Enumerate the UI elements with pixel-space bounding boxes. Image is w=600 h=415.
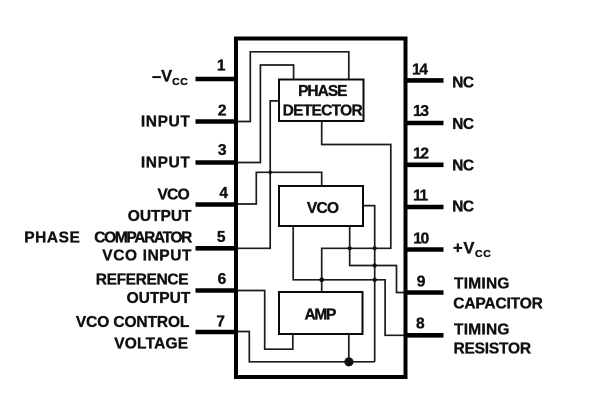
svg-text:DETECTOR: DETECTOR [283,102,363,119]
svg-text:VCO CONTROL: VCO CONTROL [76,314,189,331]
svg-text:OUTPUT: OUTPUT [127,290,191,307]
svg-text:INPUT: INPUT [141,154,191,171]
svg-text:10: 10 [413,230,428,247]
svg-text:COMPARATOR: COMPARATOR [94,229,192,246]
svg-text:14: 14 [412,61,428,78]
svg-text:NC: NC [452,116,474,133]
svg-text:VCO INPUT: VCO INPUT [102,248,192,265]
svg-text:–VCC: –VCC [152,68,189,89]
svg-text:VOLTAGE: VOLTAGE [114,335,188,352]
svg-text:AMP: AMP [305,306,337,323]
svg-text:3: 3 [218,142,227,159]
svg-text:TIMING: TIMING [454,276,510,293]
svg-text:NC: NC [452,158,474,175]
svg-text:NC: NC [452,198,474,215]
svg-text:VCO: VCO [307,200,339,217]
svg-text:8: 8 [416,316,425,333]
svg-text:REFERENCE: REFERENCE [96,272,188,289]
svg-text:VCO: VCO [158,187,190,204]
svg-text:OUTPUT: OUTPUT [128,208,192,225]
svg-text:9: 9 [417,274,426,291]
svg-text:TIMING: TIMING [454,321,510,338]
svg-text:+VCC: +VCC [453,240,491,261]
svg-text:4: 4 [219,185,228,202]
svg-text:PHASE: PHASE [298,83,347,100]
svg-text:7: 7 [216,313,225,330]
svg-text:5: 5 [217,229,226,246]
svg-text:13: 13 [413,103,429,120]
svg-text:NC: NC [452,74,474,91]
svg-text:INPUT: INPUT [141,113,191,130]
svg-text:11: 11 [413,188,428,205]
svg-text:CAPACITOR: CAPACITOR [453,295,542,312]
svg-text:6: 6 [218,271,227,288]
svg-text:PHASE: PHASE [24,229,80,246]
svg-text:2: 2 [218,103,227,120]
svg-text:12: 12 [413,146,428,163]
svg-text:RESISTOR: RESISTOR [454,341,531,358]
svg-text:1: 1 [217,58,226,75]
